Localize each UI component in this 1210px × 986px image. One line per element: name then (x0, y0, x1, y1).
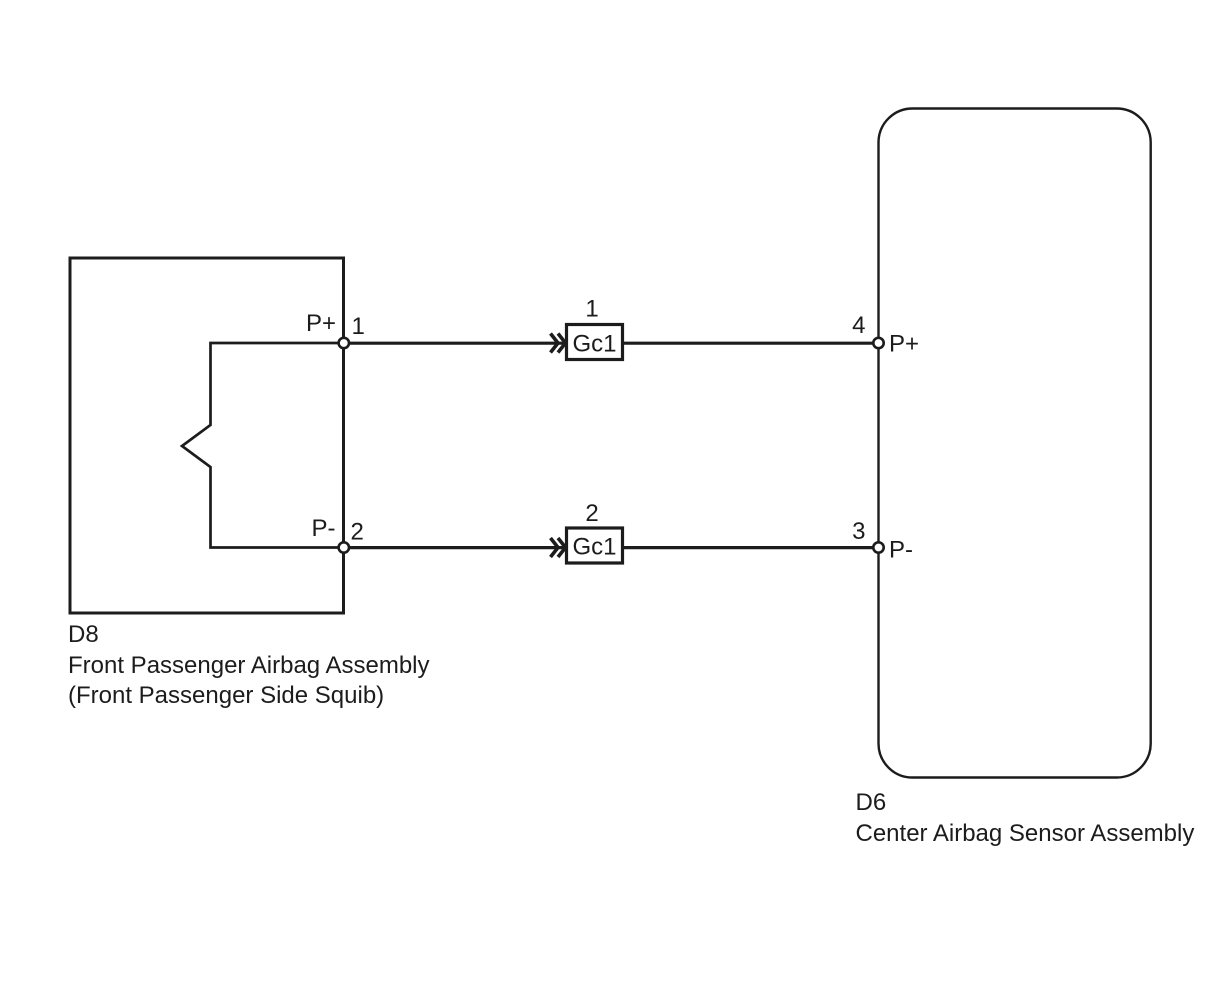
terminal pin 2 of D8 (339, 542, 349, 552)
svg-text:Front Passenger Airbag Assembl: Front Passenger Airbag Assembly (68, 652, 430, 679)
wire pin1 to pin4 (P+ line) (344, 342, 879, 345)
svg-text:P-: P- (312, 515, 336, 542)
terminal pin 3 of D6 (873, 542, 883, 552)
squib element (internal wire with notch) (182, 343, 344, 548)
svg-text:Gc1: Gc1 (572, 534, 616, 561)
svg-text:4: 4 (852, 312, 865, 339)
svg-text:Gc1: Gc1 (572, 331, 616, 358)
svg-text:P-: P- (889, 537, 913, 564)
svg-text:2: 2 (351, 519, 364, 546)
terminal pin 1 of D8 (339, 338, 349, 348)
svg-text:D8: D8 (68, 621, 99, 648)
svg-text:P+: P+ (306, 310, 336, 337)
splice symbol chevrons at Gc1 upper (551, 334, 566, 353)
wire pin2 to pin3 (P- line) (344, 546, 879, 549)
svg-text:P+: P+ (889, 331, 919, 358)
svg-text:3: 3 (852, 518, 865, 545)
connector D6 box (Center Airbag Sensor Assembly) (879, 109, 1151, 778)
svg-text:D6: D6 (856, 789, 887, 816)
splice symbol chevrons at Gc1 lower (551, 538, 566, 557)
connector Gc1 box upper (567, 325, 623, 360)
connector D8 box (Front Passenger Airbag Assembly) (70, 258, 344, 613)
svg-text:1: 1 (352, 313, 365, 340)
svg-text:Center Airbag Sensor Assembly: Center Airbag Sensor Assembly (856, 820, 1195, 847)
terminal pin 4 of D6 (873, 338, 883, 348)
svg-text:1: 1 (585, 296, 598, 323)
svg-text:2: 2 (585, 500, 598, 527)
svg-text:(Front Passenger Side Squib): (Front Passenger Side Squib) (68, 682, 384, 709)
connector Gc1 box lower (567, 528, 623, 563)
